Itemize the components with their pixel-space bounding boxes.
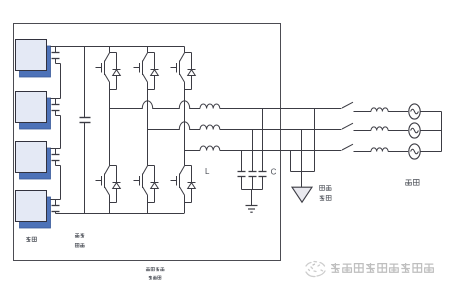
svg-text:C: C — [271, 168, 277, 177]
svg-text:L: L — [205, 167, 210, 176]
